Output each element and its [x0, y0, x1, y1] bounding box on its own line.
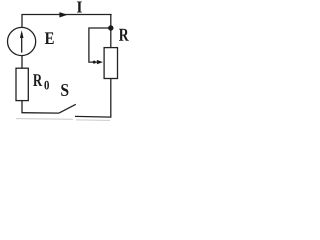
label R0 (subscript 0)	[44, 81, 49, 90]
source E internal arrow shaft	[21, 33, 23, 53]
rheostat wiper shaft blob	[93, 61, 96, 64]
wire right vertical upper (top corner through node to R top)	[110, 15, 112, 48]
node junction dot	[108, 25, 113, 30]
wire top horizontal	[21, 14, 111, 16]
source E internal arrowhead	[20, 30, 24, 38]
wire bottom-left (corner to switch pivot)	[21, 112, 59, 114]
source E circle U1	[8, 27, 36, 55]
wire shadow (scan echo) bottom-right	[76, 119, 110, 122]
wire left vertical lower (R0 bottom to bottom-left corner)	[21, 101, 23, 113]
resistor R0 body	[16, 68, 28, 100]
label R0 (R)	[33, 74, 42, 86]
wire shadow (scan echo) bottom-left	[16, 118, 73, 121]
label E	[45, 32, 54, 44]
wire left vertical upper (top wire to source top)	[21, 15, 23, 29]
wire left vertical (source bottom to R0 top)	[21, 56, 23, 69]
label S	[61, 84, 68, 96]
switch S blade	[59, 104, 76, 113]
wire wiper branch (node to rheostat arrow)	[89, 28, 111, 62]
rheostat wiper arrowhead	[97, 60, 103, 64]
wire bottom-right (switch contact to bottom-right corner)	[75, 115, 111, 118]
current I arrowhead on top wire	[59, 12, 67, 17]
label I	[77, 2, 82, 13]
wire right vertical lower (bottom corner to R bottom)	[110, 79, 112, 118]
label R	[119, 29, 129, 41]
resistor R body (rheostat)	[104, 48, 117, 79]
